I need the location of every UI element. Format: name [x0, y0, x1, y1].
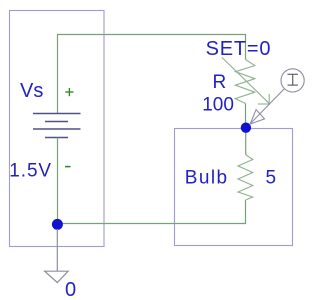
- polarity mark	[65, 166, 71, 168]
svg-text:Bulb: Bulb	[185, 167, 229, 188]
current probe stem and open arrowhead	[250, 89, 284, 124]
node: mid junction dot	[241, 123, 251, 133]
resistor Bulb zigzag body	[238, 155, 253, 201]
svg-text:R: R	[213, 72, 227, 93]
svg-text:0: 0	[65, 279, 76, 300]
wire: battery bottom down to junction	[57, 138, 59, 225]
svg-text:Vs: Vs	[20, 80, 43, 102]
current probe circle with I	[281, 69, 304, 92]
svg-text:100: 100	[202, 95, 234, 116]
node: bottom junction dot	[52, 219, 63, 230]
+ polarity mark	[65, 88, 73, 96]
potentiometer R zigzag body	[235, 60, 255, 104]
wire: mid junction down to bulb top	[245, 128, 247, 155]
Bulb block outline box	[175, 129, 293, 246]
svg-text:SET=0: SET=0	[206, 38, 272, 60]
wire: pot bottom to mid junction	[245, 104, 247, 128]
battery Vs plates	[33, 114, 81, 138]
Vs source block outline box	[10, 11, 105, 247]
svg-text:1.5V: 1.5V	[9, 161, 52, 182]
ground 0 symbol	[45, 229, 69, 283]
wire: bottom junction across to bulb bottom	[58, 200, 246, 224]
potentiometer wiper arrow	[222, 58, 270, 105]
wire: battery top up and across to potentiometer top	[58, 35, 246, 114]
svg-text:5: 5	[266, 167, 277, 188]
